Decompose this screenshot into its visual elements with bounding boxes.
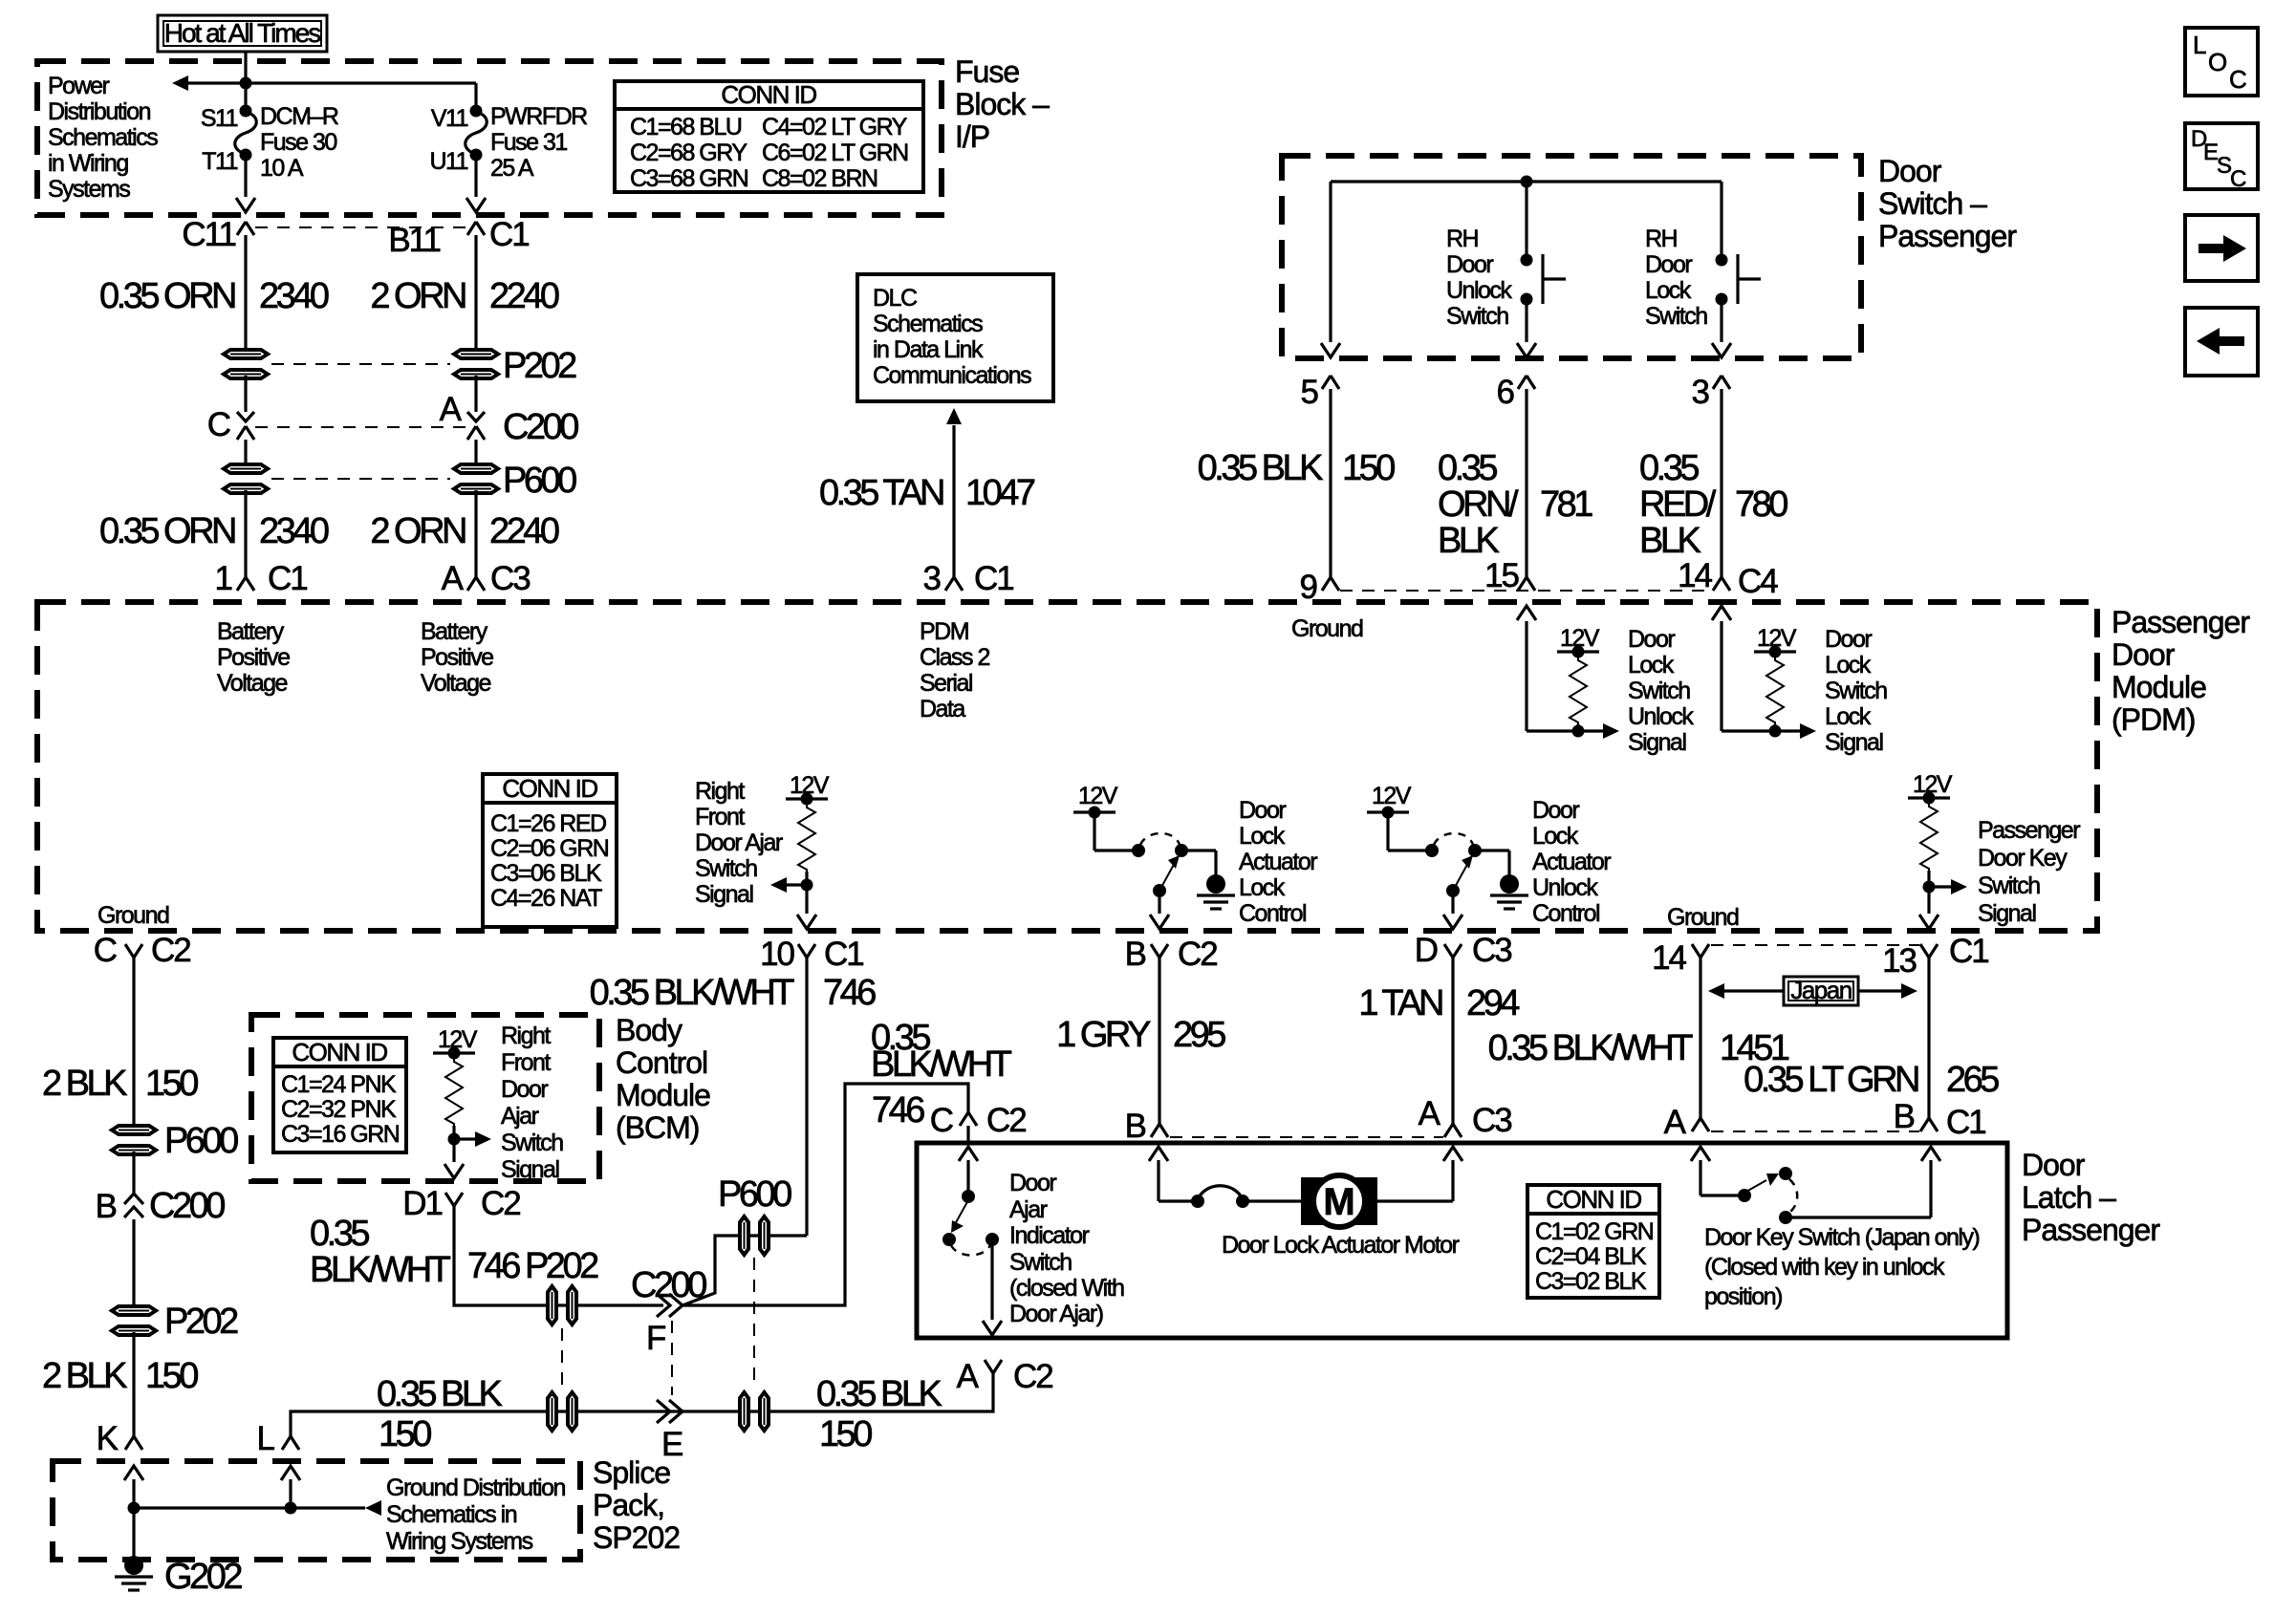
svg-text:Right: Right [501,1023,551,1049]
pin 6 [1518,376,1535,389]
ground wire from latch [291,1373,993,1436]
svg-text:P600: P600 [164,1121,238,1161]
svg-text:Actuator: Actuator [1532,849,1611,875]
wire down to fuse 31 [474,83,477,109]
svg-text:C1: C1 [489,216,529,253]
wire 2340 upper left [244,235,247,353]
pin 13 C1 [1920,944,1938,958]
wires to P600 [244,440,247,467]
svg-text:BLK: BLK [1438,521,1499,561]
svg-text:C1: C1 [1946,1104,1985,1141]
svg-text:U11: U11 [429,148,467,175]
pin 14 into PDM [1713,577,1730,591]
pin 5 [1322,376,1339,389]
pin B C1 (latch top right) [1920,1118,1938,1131]
motor to pin A wire [1377,1147,1462,1201]
svg-text:T11: T11 [202,148,237,175]
LOC box [2185,28,2258,96]
svg-text:CONN ID: CONN ID [721,80,816,109]
svg-text:Actuator: Actuator [1239,849,1317,875]
svg-text:0.35 LT GRN: 0.35 LT GRN [1744,1060,1918,1100]
svg-text:C2: C2 [1178,936,1217,973]
svg-text:PWRFDR: PWRFDR [490,103,587,130]
svg-text:Door Lock Actuator Motor: Door Lock Actuator Motor [1222,1232,1460,1259]
svg-text:1047: 1047 [965,473,1035,513]
svg-text:BLK: BLK [1639,521,1700,561]
svg-text:Ground: Ground [97,902,169,929]
svg-text:12V: 12V [1078,783,1118,809]
svg-text:Door Ajar): Door Ajar) [1009,1301,1103,1327]
Door Lock Switch Lock Signal circuit [1712,606,1887,756]
Door Switch Passenger dashed box [1282,156,1861,358]
svg-text:Door: Door [2022,1148,2086,1182]
svg-text:in Data Link: in Data Link [873,336,984,363]
svg-text:CONN ID: CONN ID [1546,1185,1641,1214]
svg-text:Lock: Lock [1239,874,1286,901]
svg-text:3: 3 [923,560,941,597]
svg-text:C3=02 BLK: C3=02 BLK [1535,1268,1647,1295]
bus wire inside door switch box [1331,180,1722,183]
svg-text:Lock: Lock [1628,652,1675,678]
wire from splice to door latch pin C [682,1084,968,1305]
svg-text:Signal: Signal [695,881,753,908]
svg-text:SP202: SP202 [593,1520,680,1555]
Japan marker [1708,976,1917,1005]
svg-text:Module: Module [2112,670,2206,704]
svg-text:RH: RH [1446,226,1479,252]
svg-text:9: 9 [1300,569,1317,606]
svg-text:C2: C2 [151,932,190,969]
wire from Hot box down [244,52,247,83]
svg-text:V11: V11 [431,105,468,132]
svg-text:C2=32 PNK: C2=32 PNK [281,1096,397,1123]
svg-text:6: 6 [1497,374,1514,411]
svg-text:DLC: DLC [873,285,918,312]
svg-text:Switch: Switch [1978,872,2040,899]
svg-text:C4=02 LT GRY: C4=02 LT GRY [762,114,908,140]
svg-text:C1=02 GRN: C1=02 GRN [1535,1218,1654,1245]
svg-text:Data: Data [920,696,965,722]
svg-text:2 BLK: 2 BLK [42,1356,127,1396]
pin A C2 (latch bottom) [985,1360,1002,1373]
svg-text:1: 1 [215,560,232,597]
svg-text:Positive: Positive [421,644,493,671]
svg-text:294: 294 [1466,983,1520,1023]
svg-text:150: 150 [145,1356,198,1396]
pin B C2 [1151,944,1168,958]
Door Latch box [917,1143,2007,1338]
svg-text:C11: C11 [182,216,235,253]
svg-text:C2=04 BLK: C2=04 BLK [1535,1243,1647,1270]
svg-text:Power: Power [48,73,110,99]
svg-text:746 P202: 746 P202 [467,1246,598,1286]
inline connector P600 [112,1126,156,1154]
dashed link 14-13 [1711,944,1919,946]
svg-text:C4: C4 [1738,563,1778,600]
wire 150 BLK [1329,389,1332,577]
svg-text:Passenger: Passenger [1878,219,2017,253]
svg-text:12V: 12V [790,772,830,799]
svg-text:0.35 BLK/WHT: 0.35 BLK/WHT [1488,1028,1694,1068]
svg-text:Door: Door [2112,637,2176,672]
svg-text:Door: Door [1239,797,1286,824]
motor M [1301,1175,1377,1227]
Ground Distribution dashed box [53,1461,580,1560]
svg-text:A: A [1419,1095,1441,1132]
CONN ID box (fuse block) [615,80,923,192]
wire 2 BLK 150 lower [132,1332,135,1436]
Battery Positive Voltage label 1 [217,618,290,697]
svg-text:Signal: Signal [501,1156,559,1183]
svg-text:5: 5 [1301,374,1318,411]
wire BCM 746 down and right [454,1206,663,1305]
svg-text:C3: C3 [490,560,530,597]
svg-text:Ground: Ground [1291,615,1363,642]
svg-text:(Closed with key in unlock: (Closed with key in unlock [1704,1254,1945,1281]
svg-text:0.35 BLK: 0.35 BLK [816,1374,942,1414]
pin B (latch top) [1151,1124,1168,1137]
pin 3 C1 into PDM [945,577,963,591]
pin A (latch top right) [1692,1118,1709,1131]
svg-text:C2=06 GRN: C2=06 GRN [490,835,609,862]
text Ground Distribution Schematics in Wiring Systems [386,1475,565,1555]
svg-text:150: 150 [145,1064,198,1104]
svg-text:Schematics: Schematics [873,311,983,337]
svg-text:Door: Door [1532,797,1579,824]
svg-text:1 TAN: 1 TAN [1358,983,1442,1023]
svg-text:D1: D1 [402,1185,442,1222]
svg-text:12V: 12V [1757,625,1797,652]
svg-text:C200: C200 [149,1186,225,1226]
svg-text:Pack,: Pack, [593,1488,664,1522]
svg-text:CONN ID: CONN ID [502,774,597,803]
svg-text:C200: C200 [503,407,578,447]
svg-text:P202: P202 [164,1302,238,1342]
wire to P202 [132,1219,135,1309]
G202 ground [115,1556,153,1590]
svg-text:2 ORN: 2 ORN [370,276,466,316]
dashed link B-A latch [1170,1136,1443,1138]
node junction [240,77,252,90]
svg-text:C2=68 GRY: C2=68 GRY [630,140,747,166]
pin A C3 (latch top) [1444,1124,1462,1137]
svg-text:C1=68 BLU: C1=68 BLU [630,114,742,140]
svg-text:2240: 2240 [489,511,559,551]
svg-text:Ground: Ground [1667,904,1739,931]
splice C200 point F [657,1294,682,1317]
svg-text:Voltage: Voltage [421,670,491,697]
svg-text:Unlock: Unlock [1532,874,1598,901]
svg-text:Communications: Communications [873,362,1031,389]
svg-text:C8=02 BRN: C8=02 BRN [762,165,877,192]
svg-text:1 GRY: 1 GRY [1056,1015,1151,1055]
svg-text:Switch: Switch [1009,1249,1072,1276]
svg-text:0.35: 0.35 [310,1214,369,1254]
svg-text:Switch: Switch [1446,303,1508,330]
svg-text:C1=26 RED: C1=26 RED [490,810,606,837]
dashed link C200 [255,426,466,428]
wire to pin 5 [1329,182,1332,342]
svg-text:C: C [207,406,230,443]
Hot at All Times box [158,15,327,52]
svg-text:Voltage: Voltage [217,670,288,697]
svg-text:14: 14 [1678,557,1712,594]
svg-text:C3=06 BLK: C3=06 BLK [490,860,602,887]
connector C200 right half (pin A) [467,412,485,421]
svg-text:Japan: Japan [1790,976,1851,1004]
svg-text:M: M [1323,1181,1354,1223]
inline connector (hatch) left [548,1392,576,1431]
bus wire with left arrow [187,81,476,84]
svg-text:Fuse: Fuse [955,54,1019,89]
svg-text:3: 3 [1692,374,1709,411]
pin 10 C1 [798,944,815,958]
svg-text:Block –: Block – [955,87,1050,121]
pin K [125,1436,142,1450]
svg-text:Door: Door [1825,626,1872,653]
svg-text:Switch: Switch [1628,678,1690,704]
svg-text:Ajar: Ajar [1009,1196,1048,1223]
svg-text:C2: C2 [481,1185,520,1222]
svg-text:2340: 2340 [259,511,329,551]
svg-text:Schematics in: Schematics in [386,1501,517,1528]
svg-text:I/P: I/P [955,119,989,154]
svg-text:(PDM): (PDM) [2112,702,2195,737]
inline connector P202 (hatch) [548,1286,576,1324]
dashed link A-B latch right [1711,1130,1919,1132]
svg-text:C1: C1 [974,560,1013,597]
svg-text:BLK/WHT: BLK/WHT [871,1044,1012,1085]
svg-text:K: K [97,1420,119,1457]
svg-text:Door Key: Door Key [1978,845,2068,872]
wire up to pin 10 [805,958,808,1236]
svg-text:Ajar: Ajar [501,1103,539,1130]
svg-text:C2: C2 [1013,1358,1052,1395]
svg-text:25 A: 25 A [490,155,534,182]
pin L [282,1436,299,1450]
svg-text:14: 14 [1652,939,1686,977]
CONN ID box (latch) [1527,1185,1659,1298]
Door Ajar Indicator Switch [942,1147,1124,1335]
inline connector P202 right [454,350,498,378]
svg-text:Indicator: Indicator [1009,1222,1090,1249]
label Door Latch - Passenger [2022,1148,2160,1247]
svg-text:Control: Control [616,1045,707,1080]
svg-text:Signal: Signal [1628,729,1686,756]
svg-text:0.35 BLK: 0.35 BLK [1198,448,1323,488]
svg-text:A: A [440,391,463,428]
svg-text:780: 780 [1735,484,1787,525]
svg-text:Door Ajar: Door Ajar [695,829,783,856]
svg-text:G202: G202 [164,1557,242,1597]
pin 15 into PDM [1518,577,1535,591]
wire D C3 to latch (1 TAN 294) [1451,958,1454,1124]
svg-text:0.35 BLK: 0.35 BLK [377,1374,502,1414]
Body Control Module dashed box [251,1015,599,1181]
svg-text:C6=02 LT GRN: C6=02 LT GRN [762,140,908,166]
svg-text:C: C [930,1102,953,1139]
RH Door Unlock Switch [1446,182,1566,342]
svg-text:Door: Door [1878,154,1942,188]
svg-text:Module: Module [616,1078,710,1112]
Door Lock Actuator Motor circuit [1149,1147,1301,1208]
PDM Class 2 Serial Data label [920,618,989,722]
dashed link C11-B11 [255,226,466,228]
svg-text:Lock: Lock [1239,823,1286,850]
svg-text:(BCM): (BCM) [616,1110,699,1145]
svg-text:position): position) [1704,1283,1782,1310]
svg-text:A: A [957,1358,980,1395]
wire to C200 [132,1152,135,1195]
svg-text:12V: 12V [1560,625,1600,652]
wire 13 to latch (0.35 LT GRN 265) [1927,958,1930,1118]
Passenger Door Key Switch Signal circuit [1908,771,2080,929]
svg-text:Body: Body [616,1013,682,1047]
dashed link 9-15-14 [1340,590,1712,592]
DESC box [2185,123,2258,192]
svg-text:B: B [1125,936,1146,973]
svg-text:265: 265 [1946,1060,1999,1100]
svg-text:Passenger: Passenger [2112,605,2250,639]
svg-text:Wiring Systems: Wiring Systems [386,1528,533,1555]
svg-text:746: 746 [872,1090,924,1130]
connector C11 [237,222,254,235]
svg-text:Front: Front [695,804,745,830]
inline connector P202 left [224,350,268,378]
svg-text:Right: Right [695,778,745,805]
Battery Positive Voltage label 2 [421,618,493,697]
svg-text:0.35: 0.35 [1639,448,1699,488]
svg-text:C: C [94,932,117,969]
svg-text:Switch: Switch [501,1130,563,1156]
wire segments to C200 [244,376,247,412]
svg-text:0.35 BLK/WHT: 0.35 BLK/WHT [590,973,795,1013]
svg-text:Door: Door [1009,1170,1056,1196]
wire 2340 lower [244,490,247,577]
splice E [657,1400,682,1423]
svg-text:15: 15 [1484,557,1518,594]
svg-text:PDM: PDM [920,618,968,645]
svg-text:Passenger: Passenger [1978,817,2080,844]
svg-text:Lock: Lock [1825,652,1872,678]
pin D C3 [1444,944,1462,958]
dashed drop F to E [671,1321,673,1395]
connector C200 left half (pin C) [237,412,254,421]
svg-text:C: C [2230,166,2246,192]
svg-text:C3: C3 [1472,932,1511,969]
svg-text:746: 746 [823,973,876,1013]
svg-text:C: C [2229,65,2247,94]
CONN ID box (PDM) [483,774,617,927]
inline connector (hatch) right [740,1392,769,1431]
svg-text:A: A [442,560,465,597]
svg-text:Door: Door [1645,251,1692,278]
svg-text:Passenger: Passenger [2022,1213,2160,1247]
svg-text:Fuse 31: Fuse 31 [490,129,567,156]
svg-text:Lock: Lock [1645,277,1692,304]
svg-text:Switch: Switch [1825,678,1887,704]
svg-text:12V: 12V [1913,771,1953,798]
svg-text:150: 150 [379,1414,431,1454]
svg-text:2 ORN: 2 ORN [370,511,466,551]
svg-text:Class 2: Class 2 [920,644,989,671]
pin 14 [1692,944,1709,958]
Right Front Door Ajar Switch Signal (PDM) [695,772,830,929]
Passenger Door Module box [37,602,2097,931]
svg-text:0.35 TAN: 0.35 TAN [819,473,943,513]
dashed drop from P600 [753,1258,755,1389]
svg-text:Unlock: Unlock [1446,277,1512,304]
svg-text:F: F [646,1320,665,1357]
svg-text:P600: P600 [503,461,576,501]
right arrow box [2185,215,2258,281]
svg-text:Fuse 30: Fuse 30 [260,129,336,156]
wire 2240 upper right [474,235,477,353]
svg-text:in Wiring: in Wiring [48,150,128,177]
svg-text:Switch –: Switch – [1878,186,1987,221]
label Fuse Block - I/P [955,54,1050,154]
svg-text:L: L [257,1420,275,1457]
svg-text:C4=26 NAT: C4=26 NAT [490,885,602,912]
svg-text:Signal: Signal [1978,900,2036,927]
connector B C200 [124,1194,143,1217]
wire 2 BLK 150 upper [132,958,135,1129]
svg-text:RH: RH [1645,226,1678,252]
DLC reference box [857,274,1053,401]
svg-text:Hot at All Times: Hot at All Times [164,18,321,48]
svg-text:Door: Door [1446,251,1493,278]
Door Lock Switch Unlock Signal circuit [1517,606,1694,756]
svg-text:C3=68 GRN: C3=68 GRN [630,165,748,192]
svg-text:RED/: RED/ [1639,484,1717,525]
label Passenger Door Module (PDM) [2112,605,2250,737]
svg-text:BLK/WHT: BLK/WHT [310,1250,451,1290]
svg-text:C1: C1 [268,560,307,597]
Door Lock Actuator Lock Control switch [1073,783,1317,929]
svg-text:2340: 2340 [259,276,329,316]
svg-text:C1: C1 [1949,933,1988,970]
wire 14 to latch (0.35 BLK/WHT 1451) [1699,958,1701,1118]
label Body Control Module (BCM) [616,1013,710,1145]
svg-text:ORN/: ORN/ [1438,484,1519,525]
svg-text:Positive: Positive [217,644,290,671]
svg-text:C3: C3 [1472,1102,1511,1139]
pin C C2 (door latch top) [960,1112,977,1126]
svg-text:12V: 12V [438,1026,478,1053]
connector B11 C1 [467,222,485,235]
svg-text:Ground Distribution: Ground Distribution [386,1475,565,1501]
wire 781 ORN/BLK [1525,389,1527,577]
svg-text:Unlock: Unlock [1628,703,1694,730]
svg-text:C1: C1 [824,936,863,973]
svg-text:150: 150 [1342,448,1395,488]
dashed link P202 [271,363,450,365]
pin D1 C2 [445,1193,463,1206]
svg-text:(closed With: (closed With [1009,1275,1124,1302]
Door Key Switch [1691,1147,1979,1310]
svg-text:Door: Door [1628,626,1675,653]
svg-text:A: A [1664,1104,1687,1141]
wire fuse31 down with arrow [474,155,477,197]
svg-text:2 BLK: 2 BLK [42,1064,127,1104]
svg-text:Systems: Systems [48,176,130,203]
L wire into box [281,1466,300,1480]
pin 3 [1713,376,1730,389]
wire to fuse 30 [244,83,247,109]
svg-text:Lock: Lock [1532,823,1579,850]
svg-text:Control: Control [1532,900,1599,927]
wire 1047 up arrow [952,425,955,577]
